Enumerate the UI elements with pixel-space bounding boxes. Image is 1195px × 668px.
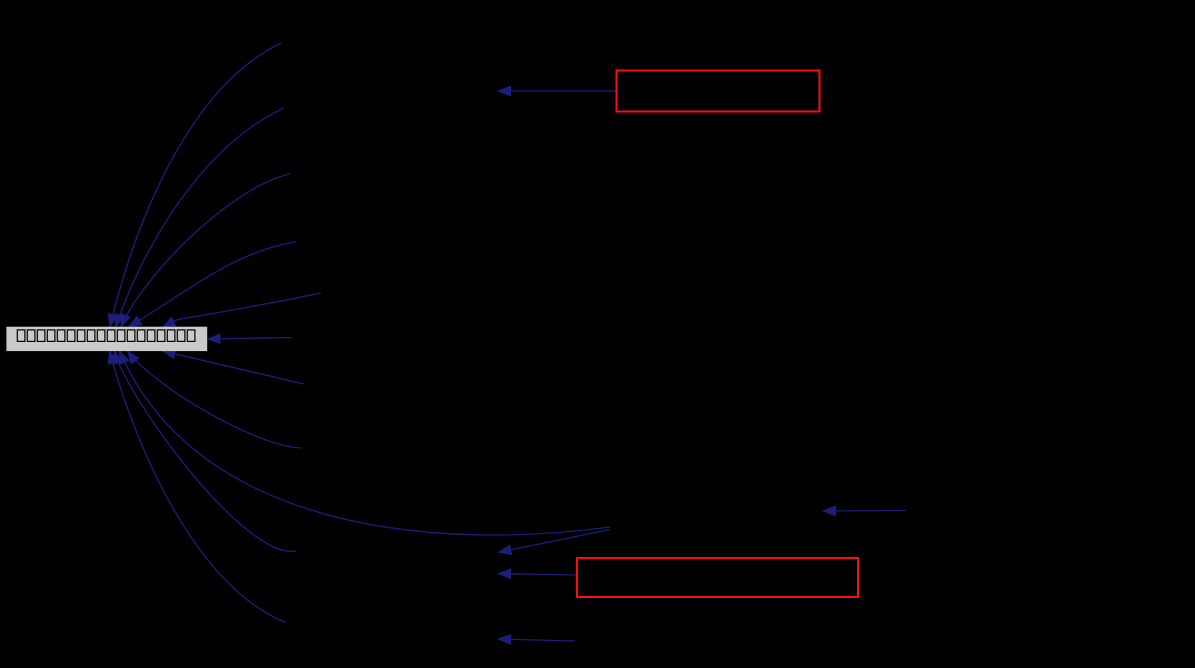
red node 1 (truncated caller, red border) xyxy=(617,71,820,112)
edge a1 (red node 1 -> hidden mid node, horizontal arrow) xyxy=(498,90,616,92)
edge e11 (caller 10 -> central node, bottom fan outermost) xyxy=(110,351,286,623)
edge e1 (caller 1 -> central node, top fan outermost) xyxy=(110,43,281,327)
edge e9 (far caller -> central node, long bottom spline) xyxy=(120,351,611,535)
edge a3 (hidden node -> hidden mid node, diagonal) xyxy=(499,530,611,553)
edge e6 (caller 6 -> central node, horizontal into right edge) xyxy=(208,338,292,340)
edge e4 (caller 4 -> central node) xyxy=(129,242,296,327)
edge e7 (caller 7 -> central node, enters bottom right) xyxy=(163,351,305,384)
central node label tofu glyph row xyxy=(17,330,195,342)
edge e10 (caller 9 -> central node) xyxy=(115,351,297,551)
red node 2 (truncated caller, red border) xyxy=(577,558,858,597)
edge e3 (caller 3 -> central node) xyxy=(121,174,290,327)
edge a2 (hidden right node -> hidden mid node) xyxy=(823,510,906,513)
edge e5 (caller 5 -> central node, enters top right) xyxy=(163,293,322,327)
edge a4 (red node 2 -> hidden mid node) xyxy=(498,574,576,576)
edge e8 (caller 8 -> central node) xyxy=(128,351,302,448)
edge a5 (hidden node -> hidden mid node, bottom arrow) xyxy=(498,639,575,641)
central node (gray box with unrenderable CJK label glyphs) xyxy=(6,327,207,351)
edge e2 (caller 2 -> central node) xyxy=(116,108,285,327)
